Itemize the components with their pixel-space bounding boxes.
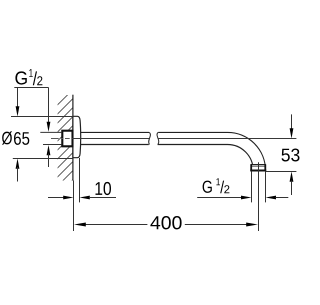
- wall face: [72, 95, 74, 181]
- 53 dim upper arrow (down): [290, 128, 294, 138]
- 53 dim lower shaft: [291, 181, 293, 196]
- 400 dim line left segment: [86, 224, 148, 226]
- wall face extension line down to 400 dim: [73, 181, 75, 232]
- break symbol left curve: [149, 132, 151, 144]
- pipe bottom edge: [81, 144, 228, 146]
- G1/2 right arrow (right-pointing): [241, 196, 252, 200]
- label G1/2 right: [203, 178, 230, 193]
- nut behind wall: [62, 131, 72, 147]
- centerline left (dash-dot near wall): [51, 138, 70, 140]
- label G1/2 top-left: [15, 69, 42, 85]
- 53 dim lower arrow (up): [290, 172, 294, 182]
- diam65 lower arrow (up): [16, 159, 20, 169]
- 53 dim upper shaft: [291, 114, 293, 129]
- bend outer curve: [228, 132, 266, 170]
- label 400: [150, 216, 181, 229]
- outlet centerline / 400 ext: [258, 162, 260, 231]
- label 10: [96, 182, 112, 195]
- flange escutcheon: [73, 116, 81, 157]
- wall hatching: [56, 89, 75, 216]
- 400 dim line right segment: [185, 224, 248, 226]
- diam65 lower shaft: [17, 167, 19, 182]
- collar second line: [251, 165, 266, 167]
- 10 dim left shaft: [48, 197, 65, 199]
- G1/2 right label underline/shaft: [197, 197, 245, 199]
- outlet collar white mask: [251, 164, 266, 171]
- pipe-end left edge extension down: [251, 171, 253, 202]
- flange front extension down (10 dim): [79, 158, 81, 202]
- 10 dim right arrow (left-pointing): [80, 196, 90, 200]
- G1/2 left label underline: [14, 87, 48, 89]
- pipe top edge: [81, 131, 228, 133]
- G1/2 left lower shaft: [48, 154, 50, 168]
- label 53: [282, 149, 300, 162]
- collar right edge: [264, 164, 266, 171]
- nut bottom edge extension (G1/2 left): [43, 144, 62, 146]
- bend inner curve: [228, 145, 254, 171]
- nut top edge extension (G1/2 left): [40, 131, 61, 133]
- G1/2 right second shaft: [276, 197, 289, 199]
- diam65 upper arrow (down): [16, 106, 20, 116]
- G1/2 left upper arrow (down): [47, 122, 51, 132]
- diam65 top extension: [11, 116, 73, 118]
- collar top line: [251, 164, 266, 166]
- 400 left arrow (left-pointing): [74, 223, 86, 227]
- diam65 upper shaft: [17, 88, 19, 108]
- 10 dim right shaft: [89, 197, 116, 199]
- diam65 bottom extension: [13, 158, 73, 160]
- pipe-end right extension to 53 dim: [266, 171, 297, 173]
- 10 dim left arrow (right-pointing): [63, 196, 73, 200]
- centerline along pipe to 53-ext: [72, 138, 149, 140]
- break symbol right curve: [157, 132, 159, 144]
- collar left edge: [250, 164, 252, 171]
- G1/2 left lower arrow (up): [47, 145, 51, 155]
- pipe-end right edge extension down: [265, 172, 267, 203]
- label diameter 65: [2, 131, 12, 144]
- G1/2 right second arrow (left-pointing): [266, 196, 277, 200]
- collar bottom (pipe end): [250, 170, 266, 172]
- 400 right arrow (right-pointing): [246, 223, 258, 227]
- G1/2 left leader shaft to pipe top: [48, 88, 50, 124]
